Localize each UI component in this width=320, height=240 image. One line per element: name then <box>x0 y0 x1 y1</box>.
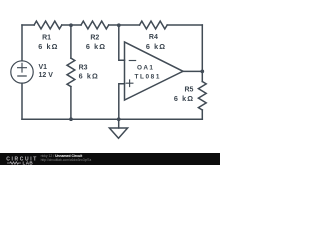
node bottom A junction dot <box>69 117 73 121</box>
svg-text:6 kΩ: 6 kΩ <box>174 94 194 103</box>
wire op-amp output <box>183 70 202 72</box>
wire left rail upper <box>21 25 23 61</box>
resistor R3 <box>67 58 75 87</box>
svg-text:6 kΩ: 6 kΩ <box>79 72 99 81</box>
resistor R4 <box>140 21 168 29</box>
wire inverting input from node B <box>119 25 125 60</box>
node B junction dot <box>117 23 121 27</box>
wire R5 to bottom rail <box>201 110 203 119</box>
wire output node to R5 <box>201 71 203 81</box>
wire node A to R3 <box>70 25 72 58</box>
footer bar <box>0 153 220 165</box>
svg-text:6 kΩ: 6 kΩ <box>86 42 106 51</box>
svg-text:6 kΩ: 6 kΩ <box>38 42 58 51</box>
svg-text:12 V: 12 V <box>39 72 54 79</box>
wire non-inverting input to bottom rail <box>119 84 125 120</box>
footer logo resistor glyph <box>7 162 21 164</box>
svg-text:R3: R3 <box>79 64 88 71</box>
wire bottom rail <box>22 118 202 120</box>
wire right rail upper <box>201 25 203 71</box>
svg-text:R5: R5 <box>184 86 193 93</box>
node A junction dot <box>69 23 73 27</box>
svg-text:6 kΩ: 6 kΩ <box>146 42 166 51</box>
op-amp minus sign <box>129 60 135 62</box>
resistor R2 <box>81 21 109 29</box>
wire node B segment <box>109 24 140 26</box>
svg-text:OA1: OA1 <box>137 64 154 71</box>
svg-text:http://circuitlab.com/c6dw3nv3: http://circuitlab.com/c6dw3nv3pf7a <box>41 158 92 162</box>
op-amp OA1 triangle <box>125 42 184 100</box>
svg-text:R2: R2 <box>90 34 99 41</box>
wire R3 to bottom rail <box>70 87 72 120</box>
svg-text:TL081: TL081 <box>135 73 161 80</box>
svg-text:R4: R4 <box>149 34 158 41</box>
node bottom B junction dot <box>117 117 121 121</box>
wire node A left segment <box>62 24 81 26</box>
wire top rail left segment <box>22 24 34 26</box>
wire top rail right segment <box>167 24 202 26</box>
op-amp plus sign <box>126 80 133 87</box>
svg-text:LAB: LAB <box>23 160 34 165</box>
resistor R1 <box>34 21 62 29</box>
voltage source V1 <box>11 61 33 83</box>
wire left rail lower <box>21 83 23 119</box>
resistor R5 <box>198 82 206 111</box>
svg-text:V1: V1 <box>39 64 48 71</box>
node output junction dot <box>200 70 204 74</box>
ground <box>118 119 120 128</box>
svg-text:R1: R1 <box>42 34 51 41</box>
